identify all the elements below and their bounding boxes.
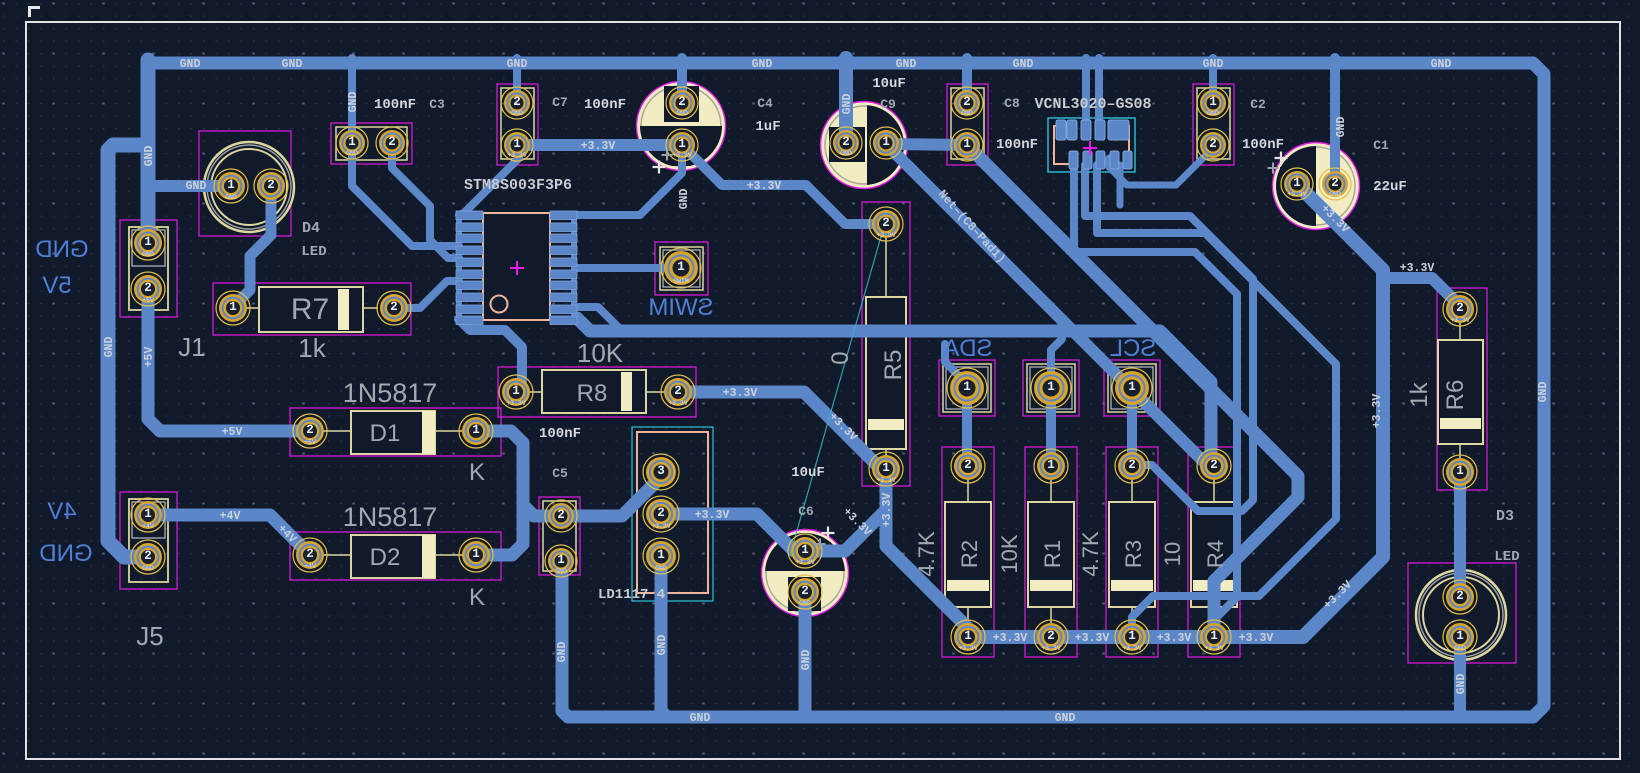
resistor R1 body — [1028, 480, 1074, 623]
wire GND stub C4 pad2 — [677, 58, 687, 103]
svg-text:GND: GND — [1055, 712, 1076, 725]
svg-text:LED: LED — [301, 244, 326, 260]
svg-text:GND: GND — [142, 251, 154, 258]
svg-text:1: 1 — [964, 629, 972, 643]
pad C1-2 — [1319, 168, 1351, 200]
capacitor C1 body — [1271, 142, 1360, 230]
resistor R8 body — [529, 370, 664, 413]
courtyard R5 — [862, 202, 910, 486]
pad C8-1 — [951, 129, 983, 161]
wire GND stub C2 pad1 — [1209, 58, 1217, 103]
svg-text:1: 1 — [229, 300, 237, 314]
marker C1 plus gray — [1268, 163, 1279, 174]
wire sensor p5 stub — [1117, 165, 1124, 205]
svg-text:C3: C3 — [429, 97, 445, 112]
svg-text:22uF: 22uF — [1373, 179, 1407, 195]
pad R4-top — [1197, 449, 1231, 483]
svg-text:2: 2 — [306, 423, 314, 437]
svg-text:R3: R3 — [1121, 540, 1146, 568]
courtyard J5 — [120, 492, 177, 589]
svg-text:R5: R5 — [880, 350, 907, 381]
wire sensor p1 run — [1074, 165, 1237, 618]
wire +3.3V R5 pad1 to C6 pad1 — [810, 469, 886, 551]
svg-text:+3.3V: +3.3V — [723, 387, 758, 400]
svg-text:+3.3V: +3.3V — [747, 180, 782, 193]
marker C1 plus white — [1275, 152, 1288, 165]
origin marker — [28, 6, 40, 17]
pad C3-1 — [336, 127, 368, 159]
svg-text:+3.3V: +3.3V — [1122, 645, 1142, 652]
wire GND from D4 pad1 — [150, 180, 231, 192]
svg-text:2: 2 — [657, 506, 665, 520]
svg-text:GND: GND — [800, 650, 813, 671]
wire MCU pin to C4 pad1 — [577, 152, 682, 215]
svg-text:2: 2 — [390, 300, 398, 314]
svg-text:2: 2 — [842, 135, 850, 149]
svg-text:SDA: SDA — [943, 335, 992, 362]
outline J1 — [129, 227, 168, 310]
capacitor C4 body — [636, 82, 726, 171]
wire SDA pad to R2 pad2 — [962, 388, 972, 466]
svg-text:D2: D2 — [370, 544, 401, 571]
LED D4 body circles — [204, 142, 294, 232]
svg-text:+3.3V: +3.3V — [506, 400, 526, 407]
pad C5-2 — [545, 500, 577, 532]
svg-text:100nF: 100nF — [584, 97, 626, 113]
IC U1 left smd pads — [456, 211, 483, 325]
svg-text:2: 2 — [388, 135, 396, 149]
marker C6 plus gray — [815, 539, 826, 550]
svg-text:4V: 4V — [47, 498, 76, 525]
pad R7-2 — [377, 291, 411, 325]
svg-text:2: 2 — [964, 458, 972, 472]
pad R1-bottom — [1034, 620, 1068, 654]
svg-text:0: 0 — [827, 351, 854, 364]
IC U1 origin cross — [510, 261, 524, 275]
pad C8-2 — [951, 87, 983, 119]
svg-text:D3: D3 — [1496, 508, 1514, 525]
pad C6-2 — [788, 575, 822, 609]
svg-text:2: 2 — [1209, 137, 1217, 151]
wire SDA feed — [945, 344, 967, 384]
svg-text:GND: GND — [555, 568, 567, 575]
svg-text:1: 1 — [1209, 95, 1217, 109]
diode D1 body — [323, 411, 463, 454]
svg-text:C4: C4 — [757, 96, 773, 111]
pad R8-2 — [661, 375, 695, 409]
svg-text:K: K — [469, 459, 485, 486]
wire GND stub C3 pad1 — [348, 58, 356, 143]
svg-text:1: 1 — [1293, 176, 1301, 190]
svg-text:10uF: 10uF — [872, 76, 906, 92]
svg-text:GND: GND — [186, 180, 207, 193]
outline pad SDA pale — [943, 364, 991, 412]
sensor U3 top smd pads — [1056, 120, 1129, 140]
svg-text:2: 2 — [513, 95, 521, 109]
wire MCU pin to R7 pad2 — [394, 281, 459, 308]
LED D3 body circles — [1416, 570, 1506, 660]
svg-text:VCNL3020–GS08: VCNL3020–GS08 — [1034, 96, 1151, 113]
svg-text:J1: J1 — [178, 332, 205, 362]
svg-text:C8: C8 — [1004, 96, 1020, 111]
svg-text:2: 2 — [1456, 301, 1464, 315]
svg-text:100nF: 100nF — [539, 426, 581, 442]
regulator U2 fab outline — [637, 432, 708, 593]
pad C1-1 — [1281, 168, 1313, 200]
resistor R3 body — [1109, 480, 1155, 623]
svg-text:1: 1 — [1456, 464, 1464, 478]
svg-text:1: 1 — [801, 543, 809, 557]
wire GND stub C9 pad2 — [839, 58, 853, 143]
svg-text:SWIM: SWIM — [673, 278, 689, 285]
wire GND left drop to J1 pad1 — [141, 60, 156, 243]
svg-text:GND: GND — [840, 150, 852, 157]
pad C4-1 — [666, 129, 698, 161]
pad D1-1 — [459, 414, 493, 448]
pad R2-bottom — [951, 620, 985, 654]
IC U1 pin1 marker — [491, 296, 508, 313]
wire C7 pad2 to MCU pin1 — [459, 152, 519, 215]
pad J1-2 — [131, 272, 165, 306]
outline C3 — [336, 127, 407, 160]
svg-text:GND: GND — [511, 110, 523, 117]
svg-text:GND: GND — [1537, 382, 1550, 403]
pad J5-1 — [131, 498, 165, 532]
svg-text:D1: D1 — [370, 420, 401, 447]
pad R6-1 — [1443, 455, 1477, 489]
svg-text:+4V: +4V — [304, 563, 316, 570]
wire C3 pad2 to MCU — [392, 146, 459, 258]
pad J5-2 — [131, 540, 165, 574]
svg-text:1: 1 — [348, 135, 356, 149]
wire mid pad feed — [1051, 339, 1062, 384]
svg-text:GND: GND — [752, 58, 773, 71]
outline pad SCL pale — [1108, 364, 1156, 412]
svg-text:+4V: +4V — [220, 510, 241, 523]
pad SW1-1 — [661, 248, 701, 288]
svg-text:LED: LED — [1494, 549, 1519, 565]
svg-text:GND: GND — [896, 58, 917, 71]
svg-text:GND: GND — [1203, 58, 1224, 71]
marker C4 plus gray — [662, 150, 673, 161]
svg-text:2: 2 — [801, 584, 809, 598]
svg-text:+3.3V: +3.3V — [668, 400, 688, 407]
wire sensor p2 hairpin to R3 pad2 — [1085, 165, 1253, 511]
svg-text:+3.3V: +3.3V — [507, 152, 527, 159]
wire SCL pad to R3 pad2 — [1127, 388, 1137, 466]
svg-text:C1: C1 — [1373, 138, 1389, 153]
wire +5V J1 pad2 to D1 pad2 — [148, 289, 310, 431]
svg-text:2: 2 — [1456, 589, 1464, 603]
svg-text:C2: C2 — [1250, 97, 1266, 112]
resistor R7 body — [246, 287, 378, 332]
svg-text:R7: R7 — [291, 293, 329, 326]
svg-text:C6: C6 — [798, 504, 814, 519]
wire GND feed sensor pin A — [1082, 58, 1090, 135]
svg-text:GND: GND — [1013, 58, 1034, 71]
wire wide MCU to R4 pad2 — [577, 318, 1211, 466]
svg-text:+5V: +5V — [143, 347, 156, 368]
outline C7 — [501, 88, 534, 159]
svg-text:1: 1 — [513, 137, 521, 151]
outline C2 — [1197, 88, 1230, 159]
pad R5-1 — [869, 452, 903, 486]
wire D4 pad2 to R7 pad1 — [233, 191, 271, 307]
capacitor C9 body — [821, 101, 910, 189]
svg-text:+3.3V: +3.3V — [695, 509, 730, 522]
outline pad P2 gray — [1030, 367, 1072, 409]
courtyard D4 — [199, 131, 291, 236]
svg-text:2: 2 — [144, 549, 152, 563]
svg-text:+3.3V: +3.3V — [1157, 632, 1192, 645]
pad D3-2 — [1443, 580, 1477, 614]
svg-text:R2: R2 — [957, 540, 982, 568]
wire K D1 pad1 to D2 pad1 — [476, 431, 523, 555]
svg-text:GND: GND — [841, 94, 854, 115]
sensor U3 fab outline — [1054, 126, 1129, 164]
svg-text:+3.3V: +3.3V — [993, 632, 1028, 645]
svg-text:R1: R1 — [1040, 540, 1065, 568]
svg-text:4.7K: 4.7K — [914, 531, 939, 577]
svg-text:10uF: 10uF — [791, 465, 825, 481]
svg-text:2: 2 — [306, 547, 314, 561]
svg-text:1N5817: 1N5817 — [343, 502, 438, 532]
pad R4-bottom — [1197, 620, 1231, 654]
svg-text:1: 1 — [882, 461, 890, 475]
svg-text:+3.3V: +3.3V — [795, 559, 815, 566]
svg-text:2: 2 — [144, 281, 152, 295]
svg-text:GND: GND — [1431, 58, 1452, 71]
ratsnest line R5 pad2 to C6 — [790, 226, 884, 555]
svg-text:+3.3V: +3.3V — [651, 523, 671, 530]
capacitor C6 body — [761, 528, 849, 617]
outline SW1 gray — [663, 250, 700, 287]
wire +3.3V C7 pad2 to C4 pad1 — [517, 139, 682, 151]
courtyard R6 — [1437, 288, 1487, 490]
svg-text:J5: J5 — [136, 621, 163, 651]
wire C3 pad1 to MCU — [352, 146, 459, 246]
svg-text:GND: GND — [142, 565, 154, 572]
wire R6 pad1 to D3 pad2 — [1454, 472, 1466, 597]
outline SW1 pale — [660, 247, 703, 290]
svg-text:1: 1 — [1456, 629, 1464, 643]
svg-text:GND: GND — [1454, 645, 1466, 652]
courtyard pad SCL — [1104, 360, 1160, 416]
svg-text:+3.3V: +3.3V — [876, 232, 896, 239]
sensor U3 bottom smd pads — [1069, 151, 1132, 169]
svg-text:+3.3V: +3.3V — [876, 477, 896, 484]
pad C9-2 — [830, 127, 862, 159]
pad U2-3 — [643, 454, 679, 490]
wire MCU pin lower right — [577, 307, 620, 329]
svg-text:+3.3V: +3.3V — [1287, 191, 1307, 198]
pad C2-2 — [1197, 129, 1229, 161]
svg-text:C9: C9 — [880, 97, 896, 112]
pad D2-1 — [459, 538, 493, 572]
wire GND LD1117 pad1 to bottom bus — [661, 556, 666, 716]
svg-text:1: 1 — [1128, 629, 1136, 643]
courtyard R7 — [213, 283, 411, 335]
pad U2-1 — [643, 538, 679, 574]
svg-text:GND: GND — [180, 58, 201, 71]
svg-text:GND: GND — [676, 110, 688, 117]
svg-text:1: 1 — [512, 384, 520, 398]
pad P2 — [1031, 368, 1071, 408]
wire IC right pad column join — [571, 215, 577, 320]
wire GND stub C8 pad2 — [962, 58, 972, 103]
svg-text:D4: D4 — [302, 220, 320, 237]
svg-text:1: 1 — [1210, 629, 1218, 643]
courtyard C5 — [539, 497, 580, 575]
svg-text:1: 1 — [144, 507, 152, 521]
pad R7-1 — [216, 291, 250, 325]
svg-text:+3.3V: +3.3V — [1239, 632, 1274, 645]
svg-text:GND: GND — [282, 58, 303, 71]
svg-text:GND: GND — [39, 540, 92, 567]
marker C4 plus white — [653, 161, 666, 174]
wire +3.3V C4 pad1 to R5 pad2 — [682, 145, 878, 224]
svg-text:+3.3V: +3.3V — [581, 140, 616, 153]
svg-text:GND: GND — [656, 635, 669, 656]
svg-text:+3.3V: +3.3V — [672, 152, 692, 159]
outline C5 — [543, 501, 576, 571]
pad SDA — [947, 368, 987, 408]
svg-text:R8: R8 — [577, 380, 608, 407]
wire GND stub C1 pad2 — [1330, 58, 1340, 184]
wire C2 pad2 to sensor p4 — [1109, 148, 1213, 185]
courtyard SW1 — [655, 242, 708, 295]
svg-text:1: 1 — [657, 548, 665, 562]
wire C9 pad1 to C8 pad1 — [886, 144, 967, 145]
svg-text:1: 1 — [227, 178, 235, 192]
courtyard R4 — [1188, 447, 1240, 657]
svg-text:1: 1 — [1047, 458, 1055, 472]
svg-text:10: 10 — [1160, 542, 1185, 566]
pad D2-2 — [293, 538, 327, 572]
svg-text:2: 2 — [557, 508, 565, 522]
svg-text:1: 1 — [1047, 380, 1055, 394]
sensor U3 VCNL3020 courtyard — [1048, 118, 1135, 172]
svg-text:1: 1 — [1128, 380, 1136, 394]
svg-text:1: 1 — [677, 260, 685, 274]
svg-text:3: 3 — [657, 464, 665, 478]
svg-text:2: 2 — [963, 95, 971, 109]
pad C4-2 — [666, 87, 698, 119]
pad C3-2 — [376, 127, 408, 159]
svg-text:GND: GND — [143, 146, 156, 167]
svg-text:+3.3V: +3.3V — [1041, 645, 1061, 652]
svg-text:GND: GND — [346, 150, 358, 157]
wire Net-(C8-Pad1) diagonal — [888, 146, 1213, 466]
pad R5-2 — [869, 207, 903, 241]
pad R6-2 — [1443, 292, 1477, 326]
svg-text:2: 2 — [267, 178, 275, 192]
pad D1-2 — [293, 414, 327, 448]
svg-text:10K: 10K — [997, 534, 1022, 573]
outline J5 — [129, 499, 168, 582]
pad R3-bottom — [1115, 620, 1149, 654]
svg-text:100nF: 100nF — [996, 137, 1038, 153]
svg-text:GND: GND — [1329, 191, 1341, 198]
pad SCL — [1112, 368, 1152, 408]
svg-text:R4: R4 — [1203, 540, 1228, 568]
svg-text:R6: R6 — [1442, 380, 1469, 411]
svg-text:GND: GND — [655, 565, 667, 572]
svg-text:GND: GND — [1335, 117, 1348, 138]
svg-text:1: 1 — [963, 137, 971, 151]
resistor R6 body — [1438, 322, 1483, 458]
svg-text:+3.3V: +3.3V — [881, 493, 894, 528]
svg-text:GND: GND — [799, 600, 811, 607]
courtyard J1 — [120, 220, 177, 317]
svg-text:C7: C7 — [552, 95, 568, 110]
wire GND top bus / right side / bottom bus / C5 drop — [148, 63, 1544, 717]
outline pad SDA gray — [946, 367, 988, 409]
pad D4-2 — [254, 169, 288, 203]
svg-text:+3.3V: +3.3V — [1204, 645, 1224, 652]
svg-text:GND: GND — [1207, 110, 1219, 117]
courtyard C8 — [947, 84, 988, 165]
pad R2-top — [951, 449, 985, 483]
svg-text:GND: GND — [35, 236, 88, 263]
courtyard D1 — [290, 408, 501, 456]
wire K branch to C5 pad2 and LD1117 pad3 — [523, 472, 661, 516]
regulator U2 courtyard — [632, 427, 713, 601]
outline pad P2 pale — [1027, 364, 1075, 412]
svg-text:+4V: +4V — [142, 523, 154, 530]
pad U2-2 — [643, 496, 679, 532]
svg-text:10K: 10K — [577, 338, 624, 368]
courtyard R8 — [498, 367, 696, 417]
svg-text:+5V: +5V — [304, 439, 316, 446]
outline J5 pin1 box — [132, 502, 165, 538]
svg-text:+5V: +5V — [142, 297, 154, 304]
svg-text:SWIM: SWIM — [648, 294, 713, 321]
svg-text:1uF: 1uF — [755, 119, 780, 135]
pad D4-1 — [214, 169, 248, 203]
wire +4V J5 pad1 to D2 pad2 — [148, 515, 310, 555]
IC U1 body outline — [483, 213, 550, 320]
svg-text:1: 1 — [882, 135, 890, 149]
svg-text:2: 2 — [674, 384, 682, 398]
wire +3.3V R5 pad1 to resistor bottom row — [886, 469, 968, 637]
svg-text:1: 1 — [472, 423, 480, 437]
wire GND stub C7 pad1 — [513, 58, 521, 103]
pad C7-1 — [501, 129, 533, 161]
wire C8 pad1 diagonal to R4 pad1 — [967, 145, 1298, 637]
sensor U3 origin cross — [1083, 141, 1097, 155]
pad R1-top — [1034, 449, 1068, 483]
svg-text:+3.3V: +3.3V — [1400, 262, 1435, 275]
svg-text:GND: GND — [961, 110, 973, 117]
courtyard C2 — [1193, 84, 1234, 165]
resistor R4 body — [1191, 480, 1237, 623]
outline C8 — [951, 88, 984, 159]
wire mid pad to R1 pad2 — [1046, 388, 1056, 466]
courtyard R1 — [1025, 447, 1077, 657]
svg-text:GND: GND — [1455, 674, 1468, 695]
resistor R5 body — [866, 238, 906, 456]
svg-text:GND: GND — [678, 189, 691, 210]
svg-text:+3.3V: +3.3V — [958, 645, 978, 652]
svg-text:1: 1 — [963, 380, 971, 394]
svg-text:1: 1 — [472, 547, 480, 561]
svg-text:LD1117 4: LD1117 4 — [598, 587, 665, 603]
courtyard pad P2 — [1023, 360, 1079, 416]
svg-text:2: 2 — [1210, 458, 1218, 472]
svg-text:2: 2 — [1047, 629, 1055, 643]
IC U1 right smd pads — [550, 211, 577, 325]
